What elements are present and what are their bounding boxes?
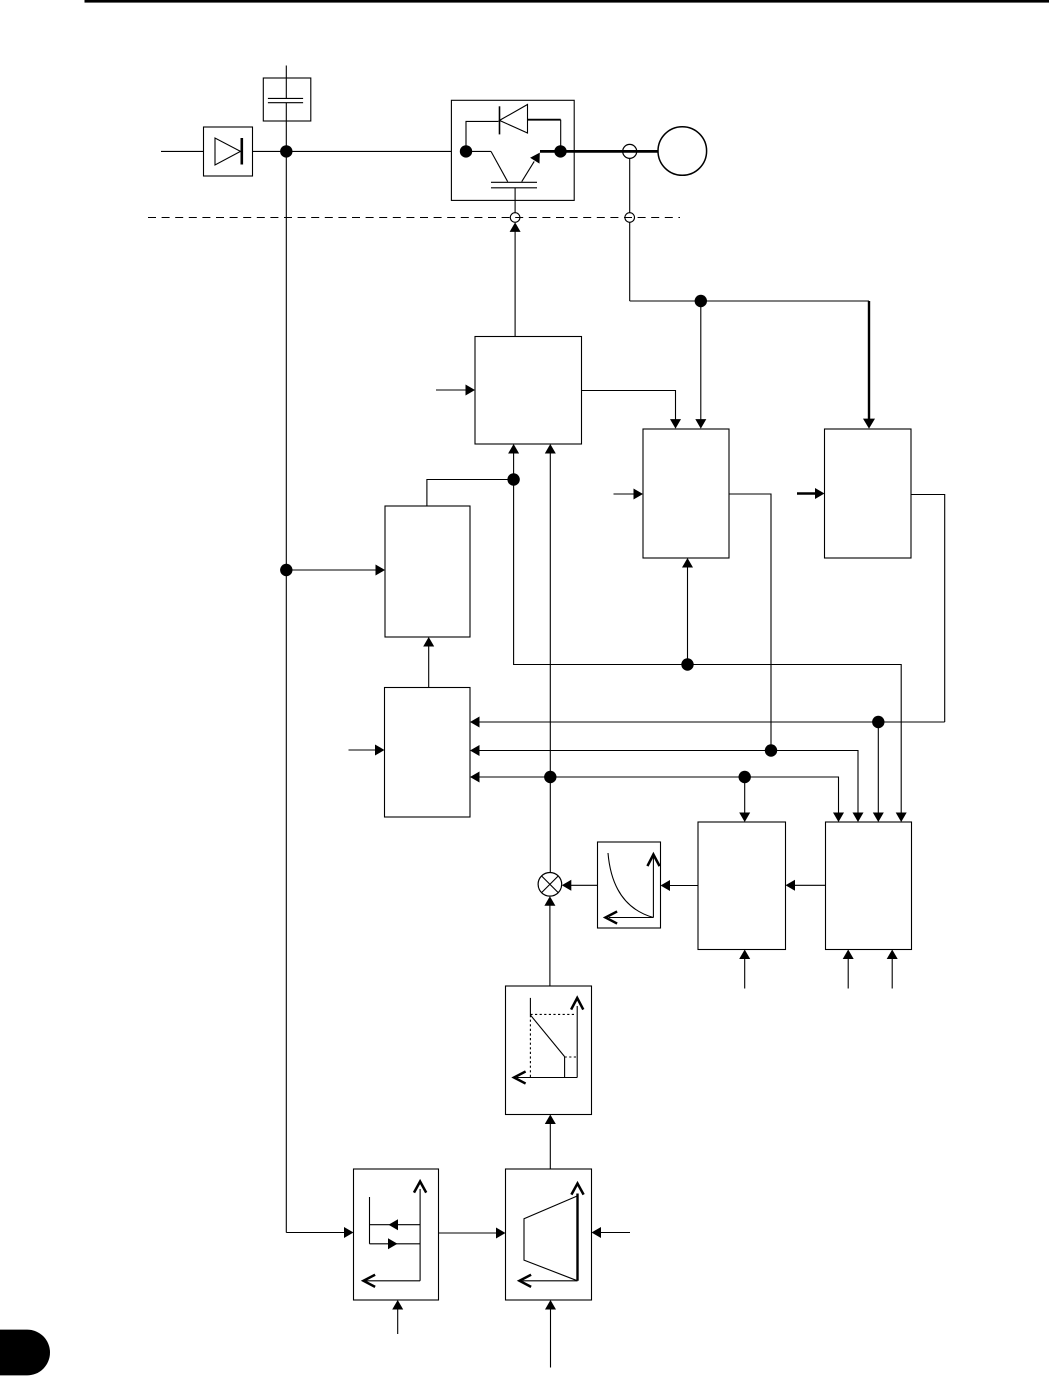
wire: branch down to U7 top bbox=[744, 777, 746, 814]
block U10: limiter bbox=[506, 1169, 592, 1300]
wire: AC input / DC bus left bbox=[161, 150, 466, 152]
wire: freewheel diode cathode lead bbox=[466, 121, 499, 146]
wire: DC bus into U11 left bbox=[286, 1232, 345, 1234]
node: DC bus tap to U4 bbox=[280, 564, 292, 576]
block U7 bbox=[698, 822, 786, 950]
node: line1 branch bbox=[872, 716, 884, 728]
multiplier X1 bbox=[538, 873, 562, 897]
block U5 bbox=[385, 688, 471, 818]
wire: gate drive from PWM block with up arrow bbox=[514, 231, 516, 337]
wire: U11 output into U10 left bbox=[439, 1232, 498, 1234]
U10 graph: axes bbox=[572, 1184, 583, 1194]
terminal circle: gate signal bbox=[510, 213, 520, 223]
wire: input stub into U2 left bbox=[614, 493, 636, 495]
U11 graph: axes bbox=[419, 1189, 421, 1281]
wire: input stub into U10 right bbox=[600, 1232, 631, 1234]
wire: U9 output up into multiplier bbox=[549, 905, 551, 986]
IGBT module box bbox=[451, 100, 574, 200]
wire: input stub into U7 bottom bbox=[744, 959, 746, 989]
wire: up into U1 bottom left bbox=[513, 453, 515, 480]
U9 graph: characteristic bbox=[529, 998, 531, 1015]
page number tab pill bbox=[0, 1330, 50, 1376]
wire: U6 output into multiplier bbox=[571, 884, 598, 886]
wire: capacitor top lead bbox=[285, 66, 287, 99]
node: collector junction bbox=[460, 145, 472, 157]
terminal circle: current sense bbox=[625, 213, 635, 223]
node: DC bus junction bbox=[280, 145, 292, 157]
wire: line3 into U5 bbox=[479, 777, 839, 814]
wire: current sense drop bbox=[629, 158, 631, 212]
wire: line2 into U5 bbox=[479, 751, 859, 814]
wire: inverter output to motor (thick) bbox=[540, 150, 658, 153]
wire: input stub into U1 left bbox=[436, 389, 467, 391]
node: line3 / U7 feed junction bbox=[739, 771, 751, 783]
block U2 bbox=[643, 429, 729, 558]
wire: DC bus tap into U4 left bbox=[286, 569, 377, 571]
U11 graph: ramp symbol bbox=[369, 1197, 371, 1244]
diode D1 bbox=[215, 138, 241, 165]
block U6: V/f curve bbox=[598, 842, 661, 928]
motor M bbox=[658, 127, 707, 176]
current sensor circle on output wire bbox=[623, 144, 637, 158]
page top rule bbox=[85, 0, 1049, 3]
wire: input stubs into U8 bottom bbox=[847, 959, 849, 989]
wire: U10 output up into U9 bottom bbox=[549, 1124, 551, 1170]
wire: U1 output to U2 top bbox=[582, 391, 676, 421]
capacitor C1 bbox=[268, 97, 303, 99]
wire: U8 output into U7 bbox=[795, 884, 826, 886]
node: line3 / multiplier feed junction bbox=[544, 771, 556, 783]
wire: input stub into U5 left bbox=[349, 749, 377, 751]
wire: DC bus vertical down to frequency setting block bbox=[285, 103, 287, 1233]
U10 graph: limiter trapezoid bbox=[524, 1196, 578, 1281]
wire: branch down to current control block bbox=[700, 301, 702, 420]
node: sense branch bbox=[695, 295, 707, 307]
wire: gate lead above boundary bbox=[514, 188, 516, 213]
wire: U2 right output down to line2 bbox=[729, 494, 771, 751]
dashed boundary line bbox=[148, 217, 680, 219]
wire: multiplier output up into U1 bottom right bbox=[549, 453, 551, 873]
wire: U5 output up into U4 bottom bbox=[428, 646, 430, 688]
wire: line1 into U5 bbox=[479, 721, 945, 723]
wire: sense line horizontal bbox=[630, 300, 869, 302]
rectifier diode box bbox=[204, 127, 253, 176]
wire: input stub into U11 bottom bbox=[397, 1309, 399, 1335]
wire: thick input stub into U3 left bbox=[797, 492, 816, 494]
block U3 bbox=[825, 429, 912, 558]
block U4 bbox=[385, 506, 470, 637]
wire: thick branch down to right block bbox=[868, 301, 870, 420]
node: line2 junction bbox=[765, 744, 777, 756]
wire: U4 feedback rail bbox=[514, 480, 902, 814]
node: U4 output junction bbox=[507, 473, 519, 485]
wire: freewheel diode anode lead bbox=[528, 119, 561, 121]
wire: U4 top output bbox=[427, 480, 514, 507]
block U1: PWM circuit bbox=[475, 337, 582, 445]
node: rail to U2 bottom bbox=[681, 658, 693, 670]
block U8 bbox=[826, 822, 912, 950]
wire: input stub into U10 bottom bbox=[550, 1309, 552, 1368]
U9 graph: axes bbox=[576, 1006, 578, 1078]
block U11: accel/decel ramp bbox=[354, 1169, 439, 1300]
wire: U3 right output down to line1 bbox=[911, 495, 945, 723]
wire: up into U2 bottom bbox=[687, 567, 689, 665]
transistor Q1 (IGBT) bbox=[466, 150, 491, 152]
block U9: slip characteristic bbox=[506, 986, 592, 1115]
U6 graph: curve bbox=[608, 853, 653, 918]
node: emitter junction bbox=[554, 145, 566, 157]
wire: branch down to U8 bbox=[877, 722, 879, 814]
U6 graph: axes bbox=[652, 857, 654, 918]
freewheel diode D2 bbox=[499, 106, 501, 134]
smoothing capacitor box bbox=[263, 78, 311, 121]
wire: U7 output into U6 bbox=[670, 885, 699, 887]
